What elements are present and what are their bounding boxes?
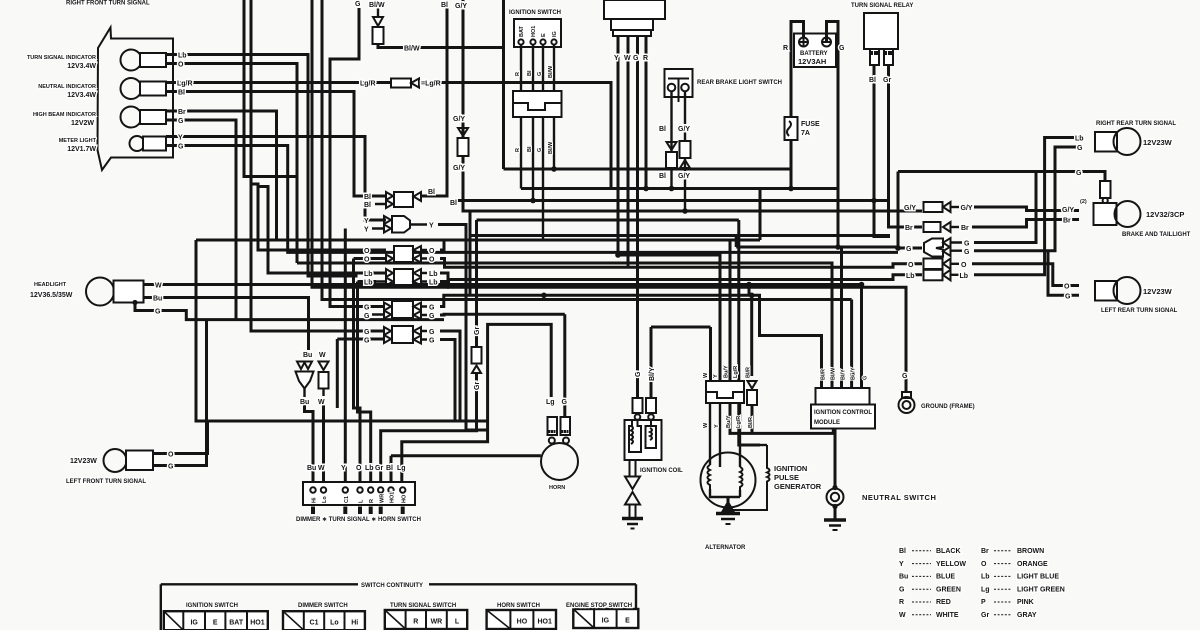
svg-text:BLUE: BLUE — [936, 574, 955, 581]
diode G/Y rear brake — [680, 160, 690, 168]
svg-text:BAT: BAT — [229, 620, 244, 627]
horn connector G — [561, 417, 571, 435]
svg-text:Y: Y — [714, 424, 720, 428]
svg-text:C1: C1 — [310, 620, 319, 627]
wire G/Y rear brake — [684, 92, 686, 212]
svg-text:G/Y: G/Y — [453, 165, 465, 172]
main connector wire G to coil — [636, 36, 639, 398]
svg-text:G: G — [863, 376, 869, 380]
connector G/Y inline — [458, 138, 469, 156]
svg-text:G: G — [537, 148, 543, 152]
svg-text:Lb: Lb — [429, 280, 438, 287]
svg-text:G: G — [633, 55, 639, 62]
svg-text:G: G — [537, 72, 543, 76]
svg-text:ALTERNATOR: ALTERNATOR — [705, 545, 746, 551]
svg-text:G: G — [355, 1, 361, 8]
svg-text:HIGH BEAM INDICATOR: HIGH BEAM INDICATOR — [33, 112, 96, 118]
alternator coil right — [740, 467, 743, 490]
svg-text:G: G — [899, 586, 905, 593]
svg-text:BAT: BAT — [519, 25, 525, 37]
wire Bl/Y to ICM — [840, 247, 843, 388]
svg-text:O: O — [981, 561, 987, 568]
svg-text:G/Y: G/Y — [453, 116, 465, 123]
svg-text:G: G — [429, 313, 435, 320]
svg-text:HO1: HO1 — [390, 492, 396, 503]
rear brake light switch box — [665, 69, 693, 97]
wire top vertical B — [251, 0, 384, 331]
spark gap — [625, 477, 640, 490]
junction rear brake GY — [682, 208, 688, 214]
ground neutral switch — [824, 518, 846, 522]
horn terminals — [549, 438, 555, 444]
svg-text:R: R — [899, 599, 904, 606]
battery minus terminal — [822, 38, 831, 47]
svg-text:G: G — [364, 305, 370, 312]
wire R battery to fuse — [791, 22, 804, 118]
svg-text:12V1.7W: 12V1.7W — [67, 146, 96, 153]
wire left rear G — [1048, 251, 1079, 296]
ground ignition coil — [622, 517, 643, 521]
svg-text:PINK: PINK — [1017, 599, 1034, 606]
right rear turn signal bulb — [1095, 132, 1117, 152]
connector pair Lb center — [376, 273, 386, 282]
svg-text:FUSE: FUSE — [801, 121, 820, 128]
svg-text:METER LIGHT: METER LIGHT — [59, 138, 97, 144]
svg-text:MODULE: MODULE — [814, 420, 840, 426]
svg-text:HO: HO — [517, 619, 528, 626]
wires into alternator — [709, 403, 711, 465]
svg-text:12V3.4W: 12V3.4W — [67, 63, 96, 70]
svg-text:12V36.5/35W: 12V36.5/35W — [30, 292, 73, 299]
coil secondary lead — [630, 460, 636, 476]
wire Bl relay — [874, 65, 890, 237]
svg-text:L: L — [455, 619, 460, 626]
ignition switch body — [513, 91, 562, 117]
wire Bl vertical top — [421, 0, 447, 196]
svg-text:12V23W: 12V23W — [1143, 287, 1173, 296]
taillight connector top — [1100, 181, 1111, 198]
wire G highbeam cluster — [166, 120, 236, 320]
svg-text:GROUND (FRAME): GROUND (FRAME) — [921, 404, 975, 410]
wire O upper out — [440, 240, 444, 250]
svg-text:O: O — [178, 62, 184, 69]
svg-text:Bl: Bl — [441, 2, 448, 9]
junction headlight ground — [132, 300, 137, 305]
connector pair O center — [372, 250, 386, 259]
svg-text:Bl/R: Bl/R — [748, 417, 754, 428]
wire G battery — [827, 22, 839, 248]
svg-text:TURN SIGNAL SWITCH: TURN SIGNAL SWITCH — [390, 603, 456, 609]
svg-text:Lb: Lb — [906, 273, 915, 280]
svg-text:Br: Br — [905, 225, 913, 232]
svg-text:Gr: Gr — [474, 327, 481, 335]
svg-text:G: G — [178, 118, 184, 125]
svg-text:REAR BRAKE LIGHT SWITCH: REAR BRAKE LIGHT SWITCH — [697, 80, 782, 86]
indicator cluster housing — [98, 28, 174, 171]
connector O row right — [924, 259, 943, 270]
svg-text:Bl: Bl — [899, 548, 906, 555]
svg-text:BLACK: BLACK — [936, 548, 961, 555]
left front turn signal bulb — [104, 449, 127, 472]
wire alternator ground — [727, 497, 730, 512]
svg-text:R: R — [515, 148, 521, 152]
svg-text:RIGHT REAR TURN SIGNAL: RIGHT REAR TURN SIGNAL — [1096, 121, 1176, 127]
wire Bl/R alternator — [750, 295, 753, 376]
svg-text:Bl/W: Bl/W — [369, 2, 385, 9]
svg-text:W: W — [703, 372, 709, 378]
svg-text:Bl: Bl — [527, 146, 533, 152]
svg-text:E: E — [213, 620, 218, 627]
svg-text:Lg/R: Lg/R — [360, 81, 376, 88]
wire Bu/Y alternator riser — [729, 240, 732, 381]
svg-text:Lb: Lb — [960, 273, 969, 280]
wire row 261 — [297, 263, 832, 388]
wire Bl cluster — [166, 92, 386, 197]
svg-text:Lb: Lb — [364, 271, 373, 278]
svg-text:IG: IG — [552, 31, 558, 37]
svg-text:G/Y: G/Y — [678, 126, 690, 133]
svg-text:Gr: Gr — [375, 465, 383, 472]
svg-text:HO: HO — [402, 494, 408, 503]
connector fork Y center — [372, 220, 384, 229]
svg-text:W: W — [155, 283, 162, 290]
svg-text:W: W — [318, 399, 325, 406]
wire Y center down — [438, 225, 488, 431]
connector Gr inline — [472, 347, 482, 364]
svg-text:W: W — [703, 422, 709, 428]
svg-text:W: W — [319, 352, 326, 359]
svg-text:LEFT FRONT TURN SIGNAL: LEFT FRONT TURN SIGNAL — [66, 479, 146, 485]
connector pair G1 center — [372, 307, 384, 315]
svg-text:Y: Y — [429, 223, 434, 230]
wire row 235 — [470, 234, 890, 237]
ignition coil box — [625, 420, 662, 460]
wire O handlebar — [354, 259, 387, 483]
svg-text:Gr: Gr — [883, 77, 891, 84]
connector G/Y rear brake — [680, 141, 691, 158]
svg-text:Bu: Bu — [303, 352, 312, 359]
svg-text:DIMMER SWITCH: DIMMER SWITCH — [298, 603, 348, 609]
junction rear brake Bl — [455, 199, 889, 202]
connector G/Y row right — [924, 202, 943, 212]
svg-text:Bl: Bl — [450, 200, 457, 207]
svg-text:Bl: Bl — [869, 77, 876, 84]
svg-text:G: G — [1077, 145, 1083, 152]
main harness connector — [604, 0, 665, 19]
neutral switch — [827, 489, 844, 506]
svg-text:G: G — [1076, 170, 1082, 177]
wire Bu diode branch — [297, 362, 312, 370]
brake and taillight bulb — [1094, 203, 1117, 225]
wire Br cluster — [166, 111, 277, 240]
svg-text:IGNITION: IGNITION — [774, 464, 807, 473]
wire G2 upper out — [440, 331, 460, 421]
svg-text:Y: Y — [364, 227, 369, 234]
svg-text:Bu: Bu — [153, 296, 162, 303]
horn body — [541, 443, 578, 480]
junction Bl/R riser — [749, 293, 755, 299]
wire v760 — [759, 189, 762, 241]
alternator internal join — [710, 489, 740, 497]
wire O left front turn — [153, 421, 208, 454]
svg-text:GREEN: GREEN — [936, 586, 961, 593]
svg-text:Y: Y — [341, 465, 346, 472]
svg-text:Bl/W: Bl/W — [404, 46, 420, 53]
wire G fork lower out — [974, 147, 1079, 251]
svg-text:Lb: Lb — [364, 280, 373, 287]
svg-text:Bl: Bl — [178, 90, 185, 97]
svg-text:Y: Y — [713, 374, 719, 378]
wire Bl/Y coil feed — [650, 327, 653, 398]
svg-text:Lg/R: Lg/R — [177, 81, 193, 88]
connector G coil — [633, 398, 643, 413]
svg-text:Br: Br — [178, 109, 186, 116]
horn connector Lg — [548, 417, 558, 435]
svg-text:G: G — [964, 249, 970, 256]
ignition switch terminal box — [514, 19, 561, 47]
svg-text:G: G — [906, 246, 912, 253]
svg-text:O: O — [1064, 284, 1070, 291]
connector Bl/Y coil — [646, 398, 656, 413]
svg-text:Lg: Lg — [546, 399, 555, 406]
wire W diode branch — [319, 362, 329, 371]
svg-text:Bl: Bl — [659, 173, 666, 180]
svg-text:G/Y: G/Y — [1062, 207, 1074, 214]
svg-text:DIMMER ∗ TURN SIGNAL ∗ HORN SW: DIMMER ∗ TURN SIGNAL ∗ HORN SWITCH — [296, 517, 421, 523]
wire Lg handlebar — [402, 324, 551, 482]
bus bottom main — [521, 187, 838, 190]
ICM connector — [816, 388, 870, 405]
svg-text:WHITE: WHITE — [936, 612, 959, 619]
diode Gr — [472, 366, 481, 374]
svg-text:IGNITION CONTROL: IGNITION CONTROL — [814, 410, 872, 416]
svg-text:W: W — [624, 55, 631, 62]
svg-text:HEADLIGHT: HEADLIGHT — [34, 282, 67, 288]
svg-text:Br: Br — [1063, 218, 1071, 225]
connector pair G2 center — [372, 330, 384, 332]
svg-text:ORANGE: ORANGE — [1017, 561, 1048, 568]
high beam indicator bulb — [121, 107, 142, 128]
svg-text:G: G — [562, 399, 568, 406]
svg-text:Bu/Y: Bu/Y — [851, 367, 857, 380]
wire G headlight — [135, 303, 444, 320]
wire G left front turn — [153, 320, 207, 466]
wire Bu/Y to coil link — [730, 403, 833, 433]
alternator connector block — [706, 381, 744, 403]
svg-text:G: G — [839, 45, 845, 52]
svg-text:O: O — [364, 257, 370, 264]
connector Lg/R inline — [391, 79, 411, 88]
svg-text:12V23W: 12V23W — [70, 458, 97, 465]
svg-text:IG: IG — [602, 618, 610, 625]
svg-text:G: G — [178, 144, 184, 151]
svg-text:YELLOW: YELLOW — [936, 561, 966, 568]
svg-text:Lo: Lo — [322, 496, 328, 503]
svg-text:NEUTRAL SWITCH: NEUTRAL SWITCH — [862, 493, 936, 502]
svg-text:Y: Y — [899, 561, 904, 568]
svg-text:W: W — [899, 612, 906, 619]
svg-text:R: R — [413, 619, 418, 626]
wire Lg/R to pulse — [739, 403, 760, 445]
svg-text:HO1: HO1 — [531, 26, 537, 37]
svg-text:IG: IG — [190, 620, 198, 627]
fuse 7A — [785, 117, 798, 140]
svg-text:7A: 7A — [801, 130, 810, 137]
junction dots bus — [643, 186, 649, 192]
wire Lg/R cluster — [166, 81, 390, 84]
svg-text:G: G — [429, 338, 435, 345]
svg-text:Lg/R: Lg/R — [736, 416, 742, 428]
wire W headlight — [144, 285, 862, 389]
svg-text:G: G — [155, 309, 161, 316]
svg-text:ENGINE STOP SWITCH: ENGINE STOP SWITCH — [566, 603, 632, 609]
meter light bulb — [130, 136, 145, 151]
wire Bl rear brake — [670, 92, 672, 189]
wire Lb handlebar — [358, 282, 377, 483]
svg-text:G: G — [902, 373, 908, 380]
svg-text:Y: Y — [364, 218, 369, 225]
svg-text:G: G — [1065, 294, 1071, 301]
wire G line to taillight — [898, 172, 1105, 182]
wire neutral to ground — [834, 505, 837, 519]
svg-text:O: O — [168, 452, 174, 459]
svg-text:IGNITION COIL: IGNITION COIL — [640, 468, 683, 474]
wire row 217 — [477, 219, 739, 222]
wire G2 lower out — [440, 340, 455, 421]
diode Bl rear brake — [667, 142, 677, 150]
wire G fork feed — [898, 172, 922, 249]
svg-text:PULSE: PULSE — [774, 473, 799, 482]
svg-text:Bu: Bu — [899, 574, 908, 581]
connector Bl/R — [747, 390, 757, 405]
wire Lg/R continues — [441, 83, 611, 189]
svg-text:Bu/Y: Bu/Y — [726, 415, 732, 428]
wire Bu/Y ICM riser — [850, 300, 853, 389]
alternator body — [701, 453, 756, 508]
svg-text:Br: Br — [981, 548, 989, 555]
svg-text:O: O — [429, 248, 435, 255]
headlight bulb — [86, 278, 114, 306]
color code legend — [912, 550, 931, 552]
svg-text:G: G — [429, 329, 435, 336]
junction Bl/Y row — [835, 244, 841, 250]
svg-text:RIGHT FRONT TURN SIGNAL: RIGHT FRONT TURN SIGNAL — [66, 1, 150, 7]
svg-text:G: G — [168, 464, 174, 471]
svg-text:C1: C1 — [344, 496, 350, 503]
svg-text:R: R — [643, 55, 648, 62]
svg-text:IGNITION SWITCH: IGNITION SWITCH — [509, 10, 561, 16]
svg-text:Bl: Bl — [386, 465, 393, 472]
svg-text:12V3AH: 12V3AH — [798, 57, 826, 66]
wire top pair G1 — [312, 0, 449, 287]
battery plus terminal — [799, 38, 808, 47]
svg-text:Lg/R: Lg/R — [733, 366, 739, 378]
main connector wire Y to alternator — [618, 36, 720, 381]
connector Lb row right — [924, 270, 943, 281]
svg-text:12V3.4W: 12V3.4W — [67, 92, 96, 99]
svg-text:HORN SWITCH: HORN SWITCH — [497, 603, 540, 609]
wire G/Y vertical top — [463, 0, 922, 211]
wire O lower out — [440, 259, 922, 268]
turn signal relay box — [864, 13, 898, 49]
wire staircase B — [258, 187, 386, 274]
svg-text:Bl: Bl — [659, 126, 666, 133]
svg-text:G/Y: G/Y — [678, 173, 690, 180]
svg-text:(2): (2) — [1080, 199, 1087, 205]
wire Lb cluster — [166, 55, 358, 277]
svg-text:G: G — [364, 329, 370, 336]
svg-text:Lo: Lo — [330, 620, 339, 627]
svg-text:GRAY: GRAY — [1017, 612, 1037, 619]
connector G fork — [924, 239, 943, 257]
wire G fork upper out — [974, 172, 1036, 243]
left rear turn signal bulb — [1095, 281, 1117, 301]
svg-text:O: O — [356, 465, 362, 472]
wire ICM to neutral switch — [834, 429, 837, 489]
wire Lb upper out — [440, 273, 922, 280]
svg-text:E: E — [541, 33, 547, 37]
svg-text:Bl/R: Bl/R — [746, 367, 752, 378]
svg-text:G: G — [429, 305, 435, 312]
neutral indicator bulb — [121, 78, 142, 99]
diode G/Y — [458, 128, 468, 136]
svg-text:Bl/W: Bl/W — [548, 141, 554, 154]
svg-text:Bl: Bl — [364, 202, 371, 209]
turn signal indicator bulb — [121, 50, 142, 71]
svg-text:HO1: HO1 — [537, 619, 552, 626]
svg-text:TURN SIGNAL INDICATOR: TURN SIGNAL INDICATOR — [27, 55, 96, 61]
svg-text:Y: Y — [178, 135, 183, 142]
wire top pair C row 251 — [322, 0, 852, 300]
svg-text:Bl/Y: Bl/Y — [649, 367, 656, 381]
svg-text:Bl: Bl — [527, 70, 533, 76]
switch continuity header — [161, 584, 636, 630]
svg-text:Bl/W: Bl/W — [831, 367, 837, 380]
wire Y meter cluster — [166, 137, 386, 221]
wire Lb lower out — [440, 282, 906, 395]
handlebar switch connector box — [303, 482, 415, 505]
pulse generator coil loop — [728, 445, 770, 510]
svg-text:E: E — [625, 618, 630, 625]
svg-text:G/Y: G/Y — [961, 205, 973, 212]
svg-text:G/Y: G/Y — [904, 205, 916, 212]
svg-text:Bl/Y: Bl/Y — [841, 369, 847, 380]
svg-text:HORN: HORN — [549, 485, 565, 491]
svg-text:Lg: Lg — [981, 586, 990, 593]
svg-text:LIGHT GREEN: LIGHT GREEN — [1017, 586, 1065, 593]
horn switch table — [487, 610, 556, 629]
svg-text:Lb: Lb — [429, 271, 438, 278]
wire link W row — [748, 285, 751, 296]
svg-text:G: G — [364, 338, 370, 345]
resistor Bl/W top — [377, 8, 379, 17]
svg-text:SWITCH CONTINUITY: SWITCH CONTINUITY — [361, 583, 423, 589]
svg-text:Bl: Bl — [428, 189, 435, 196]
svg-text:WR: WR — [380, 494, 386, 503]
engine stop switch table — [573, 609, 638, 628]
wire row 240 long — [196, 239, 760, 242]
svg-text:G: G — [635, 371, 642, 377]
svg-text:G: G — [364, 313, 370, 320]
wire O cluster — [166, 64, 297, 264]
ignition switch wires to body — [520, 45, 522, 92]
svg-text:W: W — [318, 465, 325, 472]
main connector wire W — [627, 36, 630, 267]
svg-text:12V23W: 12V23W — [1143, 138, 1173, 147]
svg-text:Lg: Lg — [397, 465, 406, 472]
svg-text:Gr: Gr — [474, 382, 481, 390]
junction G fork — [895, 245, 901, 251]
